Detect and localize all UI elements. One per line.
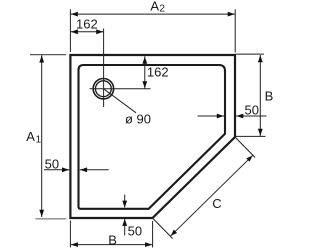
dimension 162 vertical bottom arrow	[142, 81, 147, 88]
svg-text:ø 90: ø 90	[125, 111, 151, 126]
dimension A1 extension line top (grey)	[30, 54, 66, 56]
dimension 50 left line outer part	[44, 169, 69, 171]
dimension B bottom extension line left	[69, 221, 71, 248]
dimension C upper arrow	[246, 156, 252, 162]
drain crosshair vertical (also extension for 162 horizontal dim)	[103, 29, 105, 108]
dimension 162 horizontal line	[70, 31, 103, 33]
dimension B bottom right arrow	[145, 242, 152, 247]
dimension 162 vertical line	[144, 56, 146, 88]
dimension B bottom left arrow	[71, 242, 78, 247]
dimension 50 right line tail	[236, 115, 267, 117]
drain outer circle	[93, 79, 113, 99]
dimension 50 right line outer part	[198, 115, 225, 117]
svg-text:50: 50	[245, 103, 259, 118]
dimension A1 bottom arrow	[39, 210, 44, 217]
dimension C extension line lower	[153, 218, 173, 239]
tray outer outline	[70, 55, 235, 218]
svg-text:1: 1	[36, 135, 42, 146]
dimension 162 horizontal left arrow	[71, 29, 78, 34]
dimension A2 right arrow	[228, 12, 235, 17]
dimension 50 right arrow at inner edge	[217, 114, 224, 119]
dimension B right bottom arrow	[258, 129, 263, 136]
dimension A1 line	[41, 55, 43, 217]
svg-text:A: A	[150, 0, 159, 13]
dimension 50 bottom down arrow	[122, 201, 127, 208]
svg-text:162: 162	[76, 16, 98, 31]
dimension B right top arrow	[258, 55, 263, 62]
dimension 50 left arrow at inner edge	[80, 167, 87, 172]
dimension A2 extension line right	[234, 9, 236, 52]
dimension B right extension line top	[236, 53, 264, 55]
dimension A1 extension line bottom (grey)	[36, 218, 67, 220]
dimension 162 vertical top arrow	[142, 57, 147, 64]
svg-text:B: B	[108, 232, 117, 247]
svg-text:162: 162	[147, 64, 169, 79]
tray inner basin outline	[79, 65, 226, 209]
dimension B right line	[259, 55, 261, 136]
dimension A1 top arrow	[39, 56, 44, 63]
dimension 50 bottom lower tail	[124, 219, 126, 235]
svg-text:50: 50	[128, 224, 142, 239]
dimension 50 bottom upper tail	[124, 195, 126, 208]
dimension 162 horizontal right arrow	[96, 29, 103, 34]
svg-text:50: 50	[45, 157, 59, 172]
svg-text:A: A	[26, 129, 35, 144]
dimension C lower arrow	[171, 230, 177, 236]
drain inner circle	[96, 81, 112, 97]
drain leader line	[103, 89, 136, 113]
dimension 50 left line inner part	[80, 169, 109, 171]
svg-text:2: 2	[159, 4, 165, 15]
dimension B bottom extension line right	[152, 221, 154, 248]
dimension B bottom line	[70, 244, 152, 246]
dimension C line	[170, 155, 253, 236]
dimension A2 line	[70, 13, 235, 15]
svg-text:B: B	[265, 88, 274, 103]
svg-text:C: C	[212, 196, 221, 211]
dimension 50 bottom up arrow	[122, 219, 127, 226]
dimension C extension line upper	[235, 137, 255, 158]
dimension B right extension line bottom	[236, 135, 266, 137]
dimension A2 extension line left	[69, 9, 71, 52]
dimension 50 right arrow at outer edge	[236, 114, 243, 119]
dimension A2 left arrow	[71, 12, 78, 17]
dimension 50 left arrow at outer edge	[62, 167, 69, 172]
drain crosshair horizontal (also extension for 162 vertical dim)	[90, 88, 151, 90]
